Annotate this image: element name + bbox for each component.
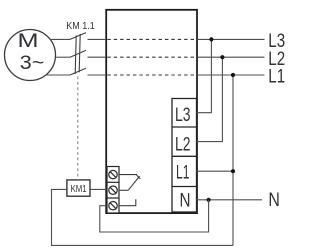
wire L1 line right	[197, 74, 265, 76]
wire L3 line right	[197, 38, 265, 40]
svg-text:L1: L1	[268, 67, 285, 88]
svg-text:KM1: KM1	[71, 184, 87, 195]
svg-text:N: N	[268, 190, 280, 211]
screw terminal 3	[109, 202, 117, 210]
screw terminal 2	[109, 186, 117, 194]
svg-text:3~: 3~	[20, 52, 45, 74]
terminal block L3 L2 L1 N	[172, 99, 197, 213]
wire contactor to box middle	[88, 56, 107, 58]
wire L3 dashed through box	[107, 38, 195, 40]
svg-text:KM 1.1: KM 1.1	[66, 21, 95, 32]
node N junction	[207, 198, 211, 202]
wire motor lead bottom	[46, 74, 70, 76]
svg-text:N: N	[180, 190, 191, 212]
wire coil loop bottom	[52, 189, 234, 245]
svg-text:L1: L1	[176, 162, 190, 184]
node L2 junction	[220, 55, 224, 59]
relay contact common wire	[119, 189, 128, 191]
node L1 junction	[231, 73, 235, 77]
node L3 junction	[209, 37, 213, 41]
relay contact blade	[128, 176, 139, 190]
coil KM1	[67, 180, 90, 196]
wire N branch down	[100, 200, 209, 232]
screw terminal 1	[109, 170, 117, 178]
svg-text:L3: L3	[175, 104, 191, 126]
wire L1 vertical	[232, 75, 234, 245]
wire KM1 to common screw	[90, 188, 107, 190]
wire motor lead top	[50, 38, 70, 40]
relay contact NO fixed wire	[119, 199, 136, 206]
wire L1 dashed through box	[107, 74, 195, 76]
wire L1 terminal to L1 line and down to coil loop	[197, 170, 234, 172]
node L1 branch junction	[231, 169, 235, 173]
svg-text:M: M	[18, 30, 39, 52]
wire L2 terminal to L2 line	[197, 57, 223, 141]
contactor KM1.1 main contacts	[70, 33, 86, 75]
wire motor lead middle	[55, 56, 70, 58]
motor M 3~	[5, 30, 56, 81]
relay box U1	[106, 10, 197, 213]
wire L3 terminal to L3 line	[197, 39, 212, 112]
wire N terminal to N label	[197, 199, 263, 201]
wire L2 line right	[197, 56, 265, 58]
relay contact NC fixed wire	[119, 175, 140, 179]
dashed control link KM1	[77, 77, 79, 180]
wire contactor to box top	[88, 38, 107, 40]
wire L2 dashed through box	[107, 56, 195, 58]
svg-text:L2: L2	[175, 133, 191, 155]
wire contactor to box bottom	[88, 74, 107, 76]
screw terminal strip	[107, 167, 119, 214]
